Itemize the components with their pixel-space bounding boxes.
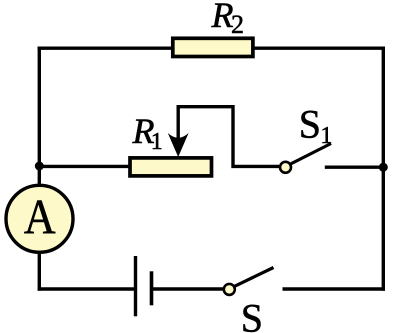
rheostat wiper arrow shaft [176, 105, 179, 146]
wire: battery to switch S pivot [152, 287, 225, 290]
wire: top horizontal [38, 47, 385, 50]
svg-text:S: S [241, 296, 263, 333]
switch S1 lever [291, 144, 332, 165]
wire: right vertical [382, 47, 385, 291]
switch S lever [235, 268, 274, 287]
svg-text:1: 1 [151, 129, 163, 155]
svg-text:S: S [299, 102, 321, 147]
wire: bottom horizontal, left corner to battery [38, 287, 136, 290]
battery short plate [150, 271, 154, 305]
wire: switch S1 to right rail [325, 165, 383, 168]
node: junction dot left (above ammeter) [35, 162, 44, 171]
svg-text:2: 2 [231, 10, 244, 39]
svg-text:1: 1 [320, 123, 332, 149]
wire: wiper up-over-down to switch S1 [178, 107, 279, 167]
wire: left vertical (ammeter to bottom wire) [38, 252, 41, 291]
switch S1 pivot contact [280, 162, 291, 173]
battery long plate [134, 256, 137, 316]
wire: switch S gap to bottom-right corner [283, 287, 386, 290]
rheostat wiper arrowhead [168, 133, 189, 157]
svg-text:A: A [24, 190, 56, 245]
node: junction dot right rail [379, 163, 388, 172]
switch S pivot contact [224, 284, 235, 295]
wire: node A to rheostat R1 [39, 165, 131, 168]
ammeter A [6, 185, 73, 252]
resistor R2 [173, 38, 253, 56]
rheostat R1 body [130, 158, 212, 176]
wire: left vertical (top wire to ammeter) [38, 47, 41, 187]
